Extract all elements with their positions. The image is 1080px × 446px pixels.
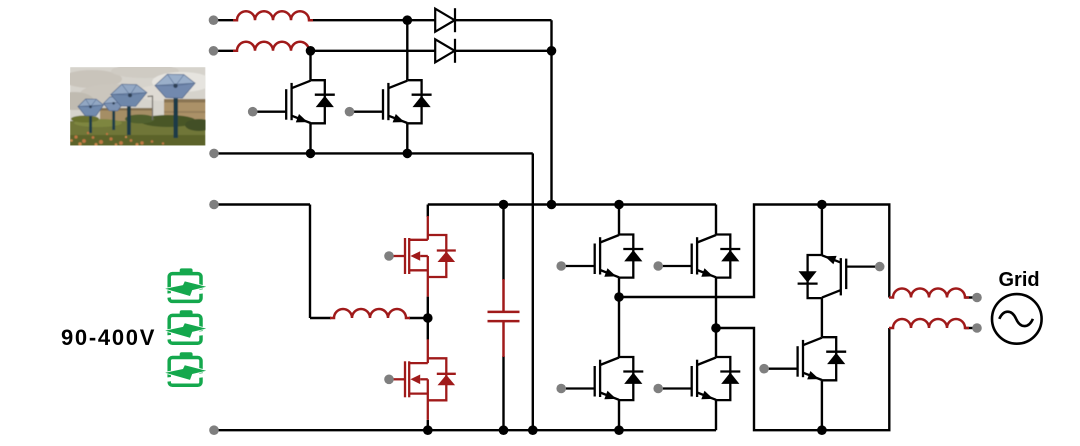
wire: PV line 2 right segment — [455, 50, 552, 52]
transistor Q5 H-bridge bottom-left IGBT — [556, 357, 643, 400]
wire: left midpoint output — [619, 205, 889, 298]
wire: capacitor branch black top — [502, 205, 504, 281]
wire: PV line 2 middle segment — [313, 50, 435, 52]
wire: grid inductor 1 lead — [965, 296, 973, 298]
node: battery plus port — [209, 200, 219, 210]
wire: PV negative vertical — [532, 153, 534, 430]
node: line1 / Q2 collector — [403, 15, 413, 25]
wire: H-bridge right leg bottom — [715, 400, 717, 430]
wire: battery inductor left lead — [310, 317, 331, 319]
wire: boost IGBT1 emitter — [309, 123, 311, 153]
wire: boost IGBT2 collector — [406, 20, 408, 80]
inductor L4 grid top — [889, 289, 969, 298]
wire: PV line 1 left segment — [214, 19, 234, 21]
wire: diode output vertical — [550, 20, 552, 204]
transistor Q2 boost IGBT — [345, 80, 432, 123]
node: PV port 1 — [209, 15, 219, 25]
wire: MOSFET midpoint link upper — [427, 297, 429, 340]
inductor L2 — [233, 42, 313, 51]
AC source (grid) — [992, 294, 1042, 344]
node: unfolder top bus — [817, 200, 827, 210]
node: grid terminal 2 — [972, 323, 982, 333]
node: grid terminal 1 — [972, 293, 982, 303]
wire: bottom rail — [214, 429, 716, 431]
transistor Q8 unfolder lower IGBT — [759, 337, 846, 380]
node: PV port 3 — [209, 149, 219, 159]
transistor M2 lower MOSFET — [384, 339, 456, 420]
wire: H-bridge left leg top — [618, 205, 620, 235]
wire: boost IGBT2 emitter — [406, 123, 408, 153]
battery cell icon 2 — [163, 310, 208, 343]
transistor Q7 unfolder upper IGBT (rotated 180) — [798, 255, 885, 298]
wire: DC plus bus — [428, 203, 716, 205]
inductor L1 — [233, 11, 313, 20]
wire: unfolder top device link — [821, 205, 823, 256]
transistor Q6 H-bridge bottom-right IGBT — [653, 357, 740, 400]
port terminal dots — [209, 15, 982, 435]
wire: battery plus horizontal — [214, 203, 310, 205]
transistor M1 upper MOSFET — [384, 216, 456, 297]
transistor Q3 H-bridge top-left IGBT — [556, 235, 643, 278]
node: MOSFET midpoint — [423, 313, 433, 323]
node: H-bridge right midpoint — [711, 323, 721, 333]
diode D2 — [435, 39, 455, 63]
node: bus / capacitor top — [499, 200, 509, 210]
node: PV port 2 — [209, 46, 219, 56]
wire: boost bottom rail — [214, 152, 533, 154]
diode D1 — [435, 8, 455, 32]
transistor Q1 boost IGBT — [248, 80, 335, 123]
svg-text:Grid: Grid — [999, 269, 1040, 291]
wire: right midpoint output — [716, 328, 889, 430]
wire: battery plus vertical — [309, 205, 311, 319]
wire: PV line 1 right segment to corner — [455, 19, 552, 21]
node: rail / Q1 emitter — [306, 149, 316, 159]
capacitor C1 — [488, 279, 520, 357]
node: rail / capacitor bottom — [499, 425, 509, 435]
battery cell icon 3 — [163, 352, 208, 385]
wire: H-bridge right leg top — [715, 205, 717, 235]
node: unfolder bottom — [817, 425, 827, 435]
wire: H-bridge left leg middle — [618, 278, 620, 357]
node: rail / MOSFET source — [423, 425, 433, 435]
svg-text:90-400V: 90-400V — [61, 325, 156, 350]
node: line2 joins diode output — [547, 46, 557, 56]
node: bus / diode output — [547, 200, 557, 210]
node: rail / PV negative — [528, 425, 538, 435]
transistor Q4 H-bridge top-right IGBT — [653, 235, 740, 278]
wire: H-bridge right leg middle — [715, 278, 717, 357]
node: bus / H-bridge left — [614, 200, 624, 210]
inductor L3 battery — [330, 309, 410, 318]
wire: bus to MOSFET drain — [427, 205, 429, 218]
node: rail / H-bridge left bottom — [614, 425, 624, 435]
wire: capacitor branch black bottom — [502, 356, 504, 430]
node: rail / Q2 emitter — [403, 149, 413, 159]
wire: unfolder middle link — [821, 298, 823, 337]
battery cell icon 1 — [163, 268, 208, 301]
wire: PV line 2 left segment — [214, 50, 234, 52]
wire: H-bridge left leg bottom — [618, 400, 620, 430]
wire: boost IGBT1 collector — [309, 51, 311, 80]
wire: battery inductor right lead — [409, 317, 428, 319]
wire: grid inductor 2 lead — [965, 327, 973, 329]
wire: unfolder bottom link — [821, 380, 823, 430]
inductor L5 grid bottom — [889, 319, 969, 328]
node: line2 / Q1 collector — [306, 46, 316, 56]
wire: PV line 1 middle segment — [313, 19, 435, 21]
wire: MOSFET source to bottom rail — [427, 420, 429, 430]
node: H-bridge left midpoint — [614, 292, 624, 302]
node: battery minus port — [209, 425, 219, 435]
